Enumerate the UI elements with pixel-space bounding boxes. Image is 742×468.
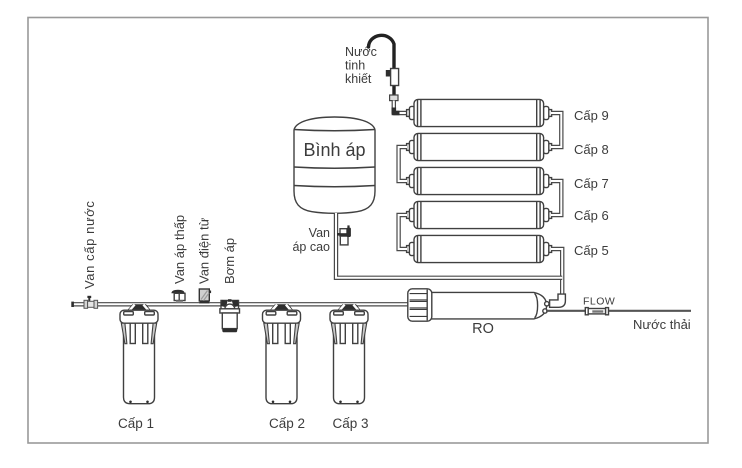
svg-text:Van cấp nước: Van cấp nước <box>82 200 97 289</box>
svg-text:Cấp 2: Cấp 2 <box>269 416 305 431</box>
cartridge Cap 8 <box>407 133 552 160</box>
pipe: bracket left rows 6-5 <box>399 215 407 249</box>
faucet valve <box>392 68 395 96</box>
svg-text:Van: Van <box>309 226 330 240</box>
valve Van ap cao <box>337 233 342 236</box>
waste line <box>546 310 691 312</box>
pipe: row 5 down to RO elbow <box>551 249 562 295</box>
solenoid valve Van dien tu <box>199 289 209 291</box>
pressure tank Binh ap <box>294 117 375 213</box>
svg-text:Cấp 9: Cấp 9 <box>574 108 609 123</box>
booster pump Bom ap <box>221 301 239 311</box>
RO elbow fitting <box>550 294 566 307</box>
svg-text:RO: RO <box>472 321 494 337</box>
pipe: faucet down to stage 9 <box>394 101 407 114</box>
flow restrictor <box>585 308 588 315</box>
svg-text:Nước: Nước <box>345 45 377 59</box>
svg-text:khiết: khiết <box>345 72 372 86</box>
pipe: bracket right rows 9-8 <box>551 113 561 147</box>
svg-text:tinh: tinh <box>345 59 365 73</box>
svg-text:Van điện từ: Van điện từ <box>197 217 212 284</box>
housing Cap 1 <box>120 304 158 404</box>
svg-text:Cấp 8: Cấp 8 <box>574 142 609 157</box>
RO ports <box>545 302 549 306</box>
svg-text:FLOW: FLOW <box>583 296 615 308</box>
pressure switch Van ap thap <box>171 290 184 294</box>
housing Cap 3 <box>330 304 368 404</box>
svg-text:áp cao: áp cao <box>292 240 330 254</box>
svg-text:Nước thải: Nước thải <box>633 317 691 332</box>
pipe: bracket left rows 8-7 <box>399 147 407 181</box>
housing Cap 2 <box>263 304 301 404</box>
cartridge Cap 7 <box>407 167 552 194</box>
svg-text:Cấp 6: Cấp 6 <box>574 208 609 223</box>
svg-text:Cấp 5: Cấp 5 <box>574 243 609 258</box>
cartridge Cap 6 <box>407 201 552 228</box>
svg-text:Van áp thấp: Van áp thấp <box>172 215 187 284</box>
pipe: tank down and right to permeate line <box>336 213 562 278</box>
RO membrane body <box>431 292 547 319</box>
main feed pipe <box>73 302 410 306</box>
svg-text:Cấp 1: Cấp 1 <box>118 416 154 431</box>
dark elbow on faucet drop <box>394 108 400 114</box>
RO membrane knurled end cap <box>408 289 432 321</box>
faucet spout <box>369 35 395 68</box>
svg-text:Cấp 7: Cấp 7 <box>574 176 609 191</box>
faucet coupler <box>390 95 398 101</box>
cartridge Cap 9 <box>407 99 552 126</box>
valve Van cap nuoc <box>88 297 90 303</box>
svg-text:Cấp 3: Cấp 3 <box>332 416 368 431</box>
svg-text:Bình áp: Bình áp <box>303 140 365 160</box>
svg-text:Bơm áp: Bơm áp <box>222 238 237 284</box>
pipe: bracket right rows 7-6 <box>551 181 561 215</box>
cartridge Cap 5 <box>407 235 552 262</box>
